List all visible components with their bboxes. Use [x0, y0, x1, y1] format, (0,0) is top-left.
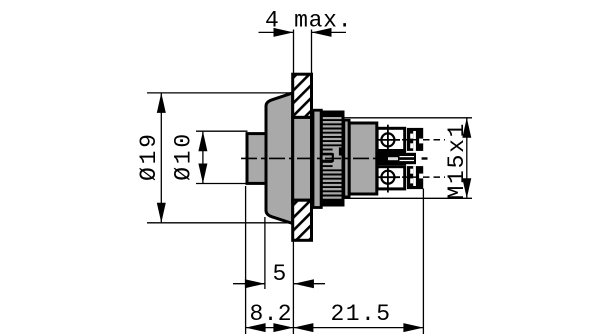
screw bottom — [377, 168, 400, 193]
dimension D10 extension lines — [196, 130, 248, 132]
button actuator — [247, 134, 266, 184]
dimension 21.5 — [293, 301, 423, 332]
svg-text:8.2: 8.2 — [250, 301, 292, 327]
dimension 4 max. — [259, 8, 352, 37]
threaded bushing M15 (ribbed) — [321, 112, 343, 205]
bezel (front collar of switch) — [266, 93, 293, 224]
clamp terminal top — [407, 128, 423, 151]
dimension D19 — [136, 93, 166, 223]
centreline dash over mid-band — [388, 157, 398, 160]
thread relief notch — [339, 147, 342, 155]
screw top — [377, 125, 400, 150]
svg-text:5: 5 — [273, 261, 287, 287]
switch body — [349, 123, 377, 194]
screw axis centreline top — [402, 139, 445, 141]
terminal box bottom — [377, 167, 405, 189]
flange washer — [344, 120, 349, 197]
clamp terminal bottom — [407, 166, 423, 189]
dimension D19 extension lines — [147, 92, 291, 94]
extension line from rear of clamps — [422, 189, 424, 335]
panel (hatched, lower part) — [293, 200, 312, 240]
dimension M15x1 — [444, 118, 471, 200]
sleeve through panel hole — [293, 117, 312, 200]
extension line from button face — [245, 186, 247, 334]
extension line from bezel face — [264, 217, 266, 289]
mounting collar behind panel — [313, 110, 321, 207]
extension line from panel face — [292, 241, 294, 335]
dimension D10 — [171, 131, 208, 183]
svg-text:Ø10: Ø10 — [171, 134, 197, 181]
main centreline — [241, 157, 416, 159]
screw axis centreline bottom — [402, 176, 445, 178]
svg-text:Ø19: Ø19 — [136, 134, 162, 181]
dimension 4 max. extension lines — [293, 30, 295, 75]
svg-text:21.5: 21.5 — [331, 301, 391, 327]
dimension M15x1 extension lines — [343, 117, 473, 119]
dimension 5 — [233, 261, 325, 288]
terminal housing mid-band — [377, 152, 406, 165]
key slot at centre — [322, 154, 333, 161]
svg-text:4 max.: 4 max. — [265, 8, 352, 34]
svg-text:M15x1: M15x1 — [444, 124, 470, 200]
panel (hatched, upper part) — [293, 74, 312, 117]
terminal box top — [377, 128, 405, 150]
dimension 8.2 — [246, 301, 294, 332]
